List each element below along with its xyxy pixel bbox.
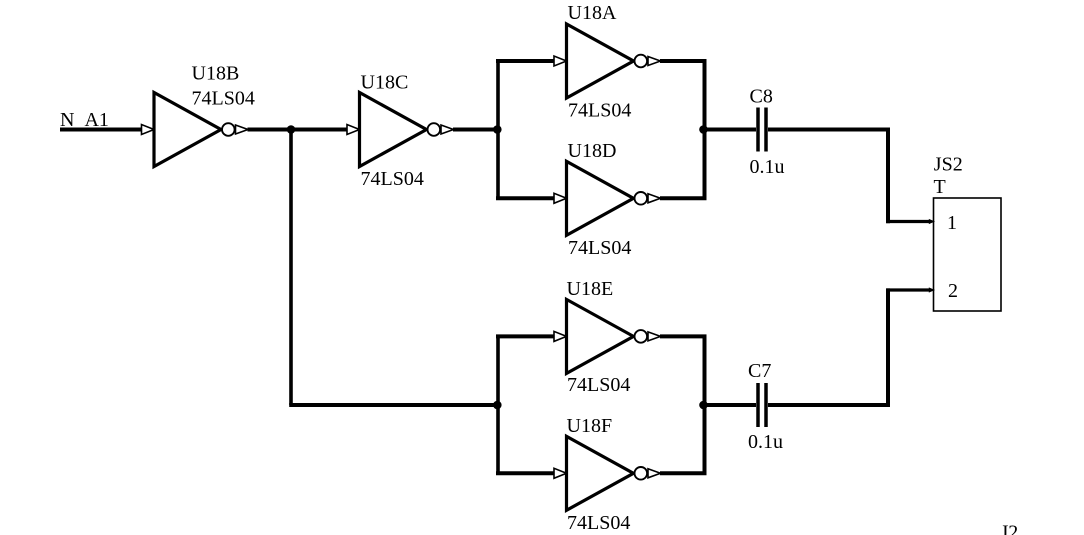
svg-text:74LS04: 74LS04: [568, 99, 631, 121]
wire U18C out to split junction: [453, 128, 500, 132]
connector JS2: [934, 198, 1002, 311]
svg-text:U18D: U18D: [568, 140, 617, 162]
svg-text:U18C: U18C: [361, 72, 409, 94]
wire junction to C7: [702, 403, 756, 407]
svg-text:U18A: U18A: [568, 2, 617, 24]
op-amp U18C inverter: [347, 93, 454, 167]
pin 1 arrow: [929, 219, 935, 224]
svg-text:74LS04: 74LS04: [567, 374, 630, 396]
wire vertical split to E and F branches: [496, 336, 500, 473]
wire junction down to lower rail: [289, 130, 293, 406]
wire to U18E input: [496, 334, 555, 338]
wire lower rail: [289, 403, 499, 407]
svg-text:C8: C8: [750, 86, 773, 108]
node junction after U18B: [287, 125, 296, 134]
op-amp U18E inverter: [554, 299, 661, 373]
wire vertical split to A and D branches: [496, 61, 500, 198]
pin 2 arrow: [929, 287, 935, 292]
wire U18B out to U18C: [248, 128, 348, 132]
svg-text:T: T: [934, 176, 946, 198]
wire C7 to JS2 pin2: [768, 288, 888, 405]
svg-text:74LS04: 74LS04: [361, 168, 424, 190]
wire U18A out: [660, 61, 705, 131]
wire to U18A input: [496, 59, 555, 63]
wire U18F out: [660, 404, 705, 474]
svg-text:U18E: U18E: [567, 278, 614, 300]
wire junction to C8: [702, 128, 756, 132]
op-amp U18A inverter: [554, 24, 661, 98]
svg-text:J2: J2: [1001, 522, 1019, 535]
svg-text:74LS04: 74LS04: [192, 88, 255, 110]
node junction feeding U18A/U18D: [493, 125, 502, 134]
wire to U18F input: [496, 471, 555, 475]
svg-text:0.1u: 0.1u: [750, 156, 785, 178]
svg-text:2: 2: [948, 280, 958, 302]
capacitor C7: [758, 383, 766, 427]
svg-text:U18F: U18F: [567, 415, 613, 437]
wire input N_A1: [60, 128, 142, 132]
wire to U18D input: [496, 196, 555, 200]
node junction feeding U18E/U18F: [493, 401, 502, 410]
node junction A/D outputs: [699, 125, 708, 134]
capacitor C8: [758, 108, 766, 152]
node junction E/F outputs: [699, 401, 708, 410]
wire U18E out: [660, 336, 705, 406]
svg-text:C7: C7: [748, 360, 771, 382]
svg-text:N_A1: N_A1: [60, 109, 109, 131]
wire C8 to JS2 pin1: [768, 130, 888, 224]
op-amp U18F inverter: [554, 436, 661, 510]
svg-text:0.1u: 0.1u: [748, 431, 783, 453]
svg-text:JS2: JS2: [934, 154, 963, 176]
svg-text:1: 1: [947, 212, 957, 234]
op-amp U18B inverter: [142, 93, 249, 167]
svg-text:74LS04: 74LS04: [568, 237, 631, 259]
op-amp U18D inverter: [554, 161, 661, 235]
wire U18D out: [660, 128, 705, 198]
svg-text:74LS04: 74LS04: [567, 512, 630, 534]
svg-text:U18B: U18B: [192, 63, 240, 85]
